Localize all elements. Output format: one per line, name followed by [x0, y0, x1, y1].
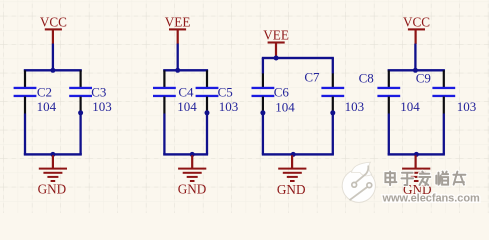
svg-text:C6: C6	[274, 84, 290, 99]
svg-text:VCC: VCC	[403, 14, 430, 29]
svg-text:C4: C4	[178, 84, 194, 99]
watermark url	[382, 193, 480, 205]
wire C8 to bottom rail	[388, 114, 390, 155]
svg-text:VEE: VEE	[263, 27, 289, 42]
svg-text:C2: C2	[37, 84, 52, 99]
junction bottom (G4)	[414, 152, 419, 157]
capacitor C9	[432, 70, 455, 113]
junction top (G1)	[50, 68, 55, 73]
ground G2	[178, 155, 206, 182]
junction top (G2)	[175, 68, 180, 73]
wire C4 to bottom rail	[163, 114, 165, 155]
capacitor C3	[69, 70, 92, 113]
svg-text:103: 103	[219, 99, 239, 114]
capacitor C2	[14, 70, 37, 113]
wire VCC to rail (G1)	[52, 44, 54, 71]
junction below C3	[78, 110, 83, 115]
power port VEE (G3)	[263, 27, 289, 57]
svg-text:104: 104	[275, 99, 295, 114]
wire C9 to bottom rail	[443, 114, 445, 155]
power port VCC (G1)	[40, 14, 67, 44]
junction top (G4)	[413, 68, 418, 73]
power port VCC (G4)	[403, 14, 430, 44]
svg-text:103: 103	[345, 99, 365, 114]
wire C5 to bottom rail	[206, 114, 208, 155]
wire top rail (G3)	[262, 57, 334, 59]
watermark chinese text	[385, 172, 465, 186]
watermark logo	[342, 162, 375, 202]
ground G3	[278, 155, 306, 182]
svg-text:C3: C3	[91, 84, 106, 99]
svg-text:103: 103	[92, 99, 112, 114]
junction bottom (G2)	[190, 152, 195, 157]
wire bottom rail (G1)	[24, 153, 82, 155]
svg-text:VEE: VEE	[165, 14, 191, 29]
capacitor C7	[321, 73, 344, 113]
svg-text:C8: C8	[359, 71, 374, 86]
wire top rail (G2)	[163, 69, 208, 71]
power port VEE (G2)	[165, 14, 191, 44]
svg-text:C5: C5	[218, 84, 233, 99]
wire bottom rail (G3)	[262, 153, 334, 155]
svg-text:www.elecfans.com: www.elecfans.com	[382, 193, 480, 205]
wire rail to C6	[262, 58, 264, 74]
svg-text:104: 104	[400, 99, 420, 114]
junction below C7	[330, 110, 335, 115]
junction bottom (G1)	[50, 152, 55, 157]
ground G4	[402, 155, 430, 182]
wire top rail (G1)	[24, 69, 82, 71]
svg-text:104: 104	[37, 99, 57, 114]
svg-text:103: 103	[457, 99, 477, 114]
capacitor C5	[196, 70, 219, 113]
capacitor C8	[377, 70, 400, 113]
capacitor C6	[252, 73, 275, 113]
svg-text:VCC: VCC	[40, 14, 67, 29]
wire VEE to rail (G2)	[177, 44, 179, 71]
wire top rail (G4)	[388, 69, 445, 71]
svg-text:GND: GND	[178, 181, 207, 196]
junction bottom (G3)	[291, 152, 296, 157]
svg-text:GND: GND	[38, 181, 67, 196]
capacitor C4	[153, 70, 176, 113]
wire C7 to bottom rail	[332, 113, 334, 155]
junction below C5	[205, 110, 210, 115]
junction below C6	[260, 110, 265, 115]
svg-text:C7: C7	[304, 70, 320, 85]
wire bottom rail (G4)	[388, 153, 445, 155]
svg-text:C9: C9	[416, 71, 431, 86]
ground G1	[39, 155, 67, 182]
svg-text:GND: GND	[277, 182, 306, 197]
wire C2 to bottom rail	[24, 114, 26, 155]
wire C6 to bottom rail	[262, 113, 264, 155]
wire VCC to rail (G4)	[414, 44, 416, 71]
wire C3 to bottom rail	[79, 114, 81, 155]
wire bottom rail (G2)	[163, 153, 208, 155]
svg-text:104: 104	[177, 99, 197, 114]
wire rail to C7	[332, 58, 334, 74]
junction top (G3)	[274, 56, 279, 61]
